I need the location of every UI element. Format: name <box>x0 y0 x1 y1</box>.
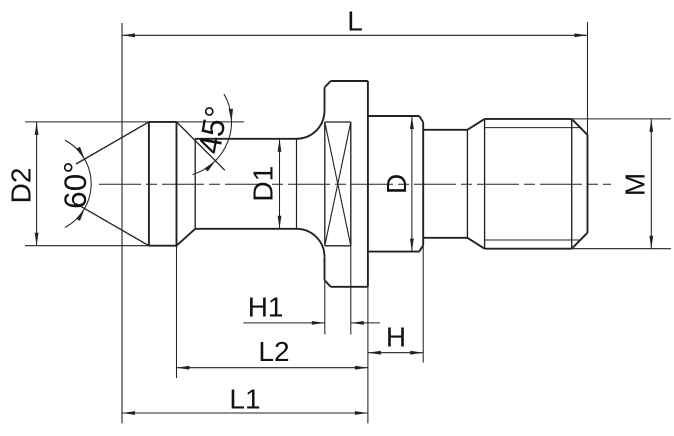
svg-text:D2: D2 <box>6 168 37 204</box>
cone lower slant edge (60-degree) extended as angle-dimension line <box>76 204 149 246</box>
svg-text:L2: L2 <box>258 336 289 367</box>
dimension D1 line with arrows <box>278 139 282 229</box>
flange bottom-left chamfer <box>325 280 331 287</box>
dimension H1 line with outside arrows <box>243 321 380 325</box>
dimension L line with arrows <box>122 33 588 37</box>
svg-text:M: M <box>620 173 651 196</box>
svg-text:D1: D1 <box>248 166 279 202</box>
flange bottom edge <box>331 286 368 288</box>
relief neck bottom edge <box>423 237 467 239</box>
thread minor diameter top line <box>485 127 581 129</box>
D cylinder top-right chamfer <box>419 116 423 122</box>
svg-text:D: D <box>381 174 412 194</box>
thread entry chamfer bottom <box>467 238 484 249</box>
dimension L2 line with arrows <box>177 366 368 370</box>
svg-text:L1: L1 <box>229 384 260 415</box>
thread chamfer start edge (vertical) <box>466 130 468 238</box>
dimension H line with arrows <box>368 351 423 355</box>
dimension D2 label (rotated) <box>6 168 37 204</box>
dimension D1 label (rotated) <box>248 166 279 202</box>
head cylinder top edge <box>149 121 177 123</box>
D cylinder top edge <box>368 115 419 117</box>
dimension L2 label <box>258 336 289 367</box>
chamfer-to-neck transition edge (vertical) <box>194 139 196 229</box>
dimension D2 line with arrows <box>35 122 39 246</box>
head cylinder bottom edge <box>149 245 177 247</box>
dimension H label <box>386 321 406 352</box>
thread end chamfer top <box>572 119 588 135</box>
svg-text:60°: 60° <box>57 161 93 209</box>
fillet tangent edge (vertical) <box>296 139 298 229</box>
D cylinder bottom edge <box>368 251 419 253</box>
dimension M label (rotated) <box>620 173 651 196</box>
60-degree angle upper arrowhead <box>76 147 84 159</box>
D cylinder bottom-right chamfer <box>419 245 423 251</box>
45-degree angle horizontal extension line <box>177 121 245 123</box>
svg-text:L: L <box>347 6 363 37</box>
neck D1 bottom edge with fillet into flange <box>195 229 324 257</box>
thread minor diameter bottom line <box>485 239 581 241</box>
dimension L1 line with arrows <box>122 411 368 415</box>
flange left face lower segment <box>324 257 326 280</box>
dimension M extension lines <box>572 119 671 249</box>
45-degree angle dimension arc <box>193 94 232 175</box>
flange top-left chamfer <box>325 81 331 88</box>
neck D1 top edge with fillet into flange <box>195 111 324 139</box>
thread major diameter top edge <box>485 118 572 120</box>
45-degree angle label (rotated) <box>191 103 235 156</box>
D cylinder right face + H extension line <box>422 122 424 362</box>
head front face (vertical) + L2 extension line <box>176 122 178 378</box>
dimension L1 label <box>229 384 260 415</box>
dimension L label <box>347 6 363 37</box>
cone upper slant edge (60-degree) extended as angle-dimension line <box>76 122 149 164</box>
dimension H1 label <box>248 291 284 322</box>
part tip face (flat end of 60-degree cone) + L/L1 extension line <box>121 23 123 423</box>
dimension D2 extension lines <box>25 122 149 246</box>
groove rectangle left edge + H1 extension line <box>324 122 326 334</box>
cone base edge (vertical) <box>148 122 150 246</box>
thread end chamfer edge (vertical) <box>571 119 573 249</box>
45-degree chamfer bottom edge <box>177 229 196 246</box>
groove rectangle right edge + H1 extension line <box>350 122 352 334</box>
centerline (axis) <box>99 183 611 185</box>
relief neck top edge <box>423 129 467 131</box>
45-degree chamfer top edge extended as angle-dimension line <box>177 122 225 170</box>
thread end chamfer bottom <box>572 233 588 249</box>
dimension D label (rotated) <box>381 174 412 194</box>
groove cross diagonal 1 <box>325 122 351 246</box>
60-degree angle lower arrowhead <box>76 209 84 221</box>
flange left face upper segment <box>324 88 326 111</box>
thread major diameter bottom edge <box>485 248 572 250</box>
dimension D line with arrows <box>410 116 414 252</box>
60-degree angle dimension arc <box>65 140 91 227</box>
svg-text:H: H <box>386 321 406 352</box>
flange right face + H/L2/L1 extension line <box>367 81 369 423</box>
45-degree angle lower arrowhead <box>205 161 216 172</box>
svg-text:H1: H1 <box>248 291 284 322</box>
60-degree angle label (rotated) <box>57 161 93 209</box>
groove rectangle bottom edge <box>325 245 351 247</box>
groove cross diagonal 2 <box>325 122 351 246</box>
flange top edge <box>331 80 368 82</box>
45-degree angle upper arrowhead <box>229 109 233 122</box>
groove rectangle top edge <box>325 121 351 123</box>
thread end face + L extension line <box>587 22 589 233</box>
dimension M line with arrows <box>649 119 653 249</box>
thread chamfer-to-major transition edge (vertical) <box>484 119 486 249</box>
thread entry chamfer top <box>467 119 484 130</box>
